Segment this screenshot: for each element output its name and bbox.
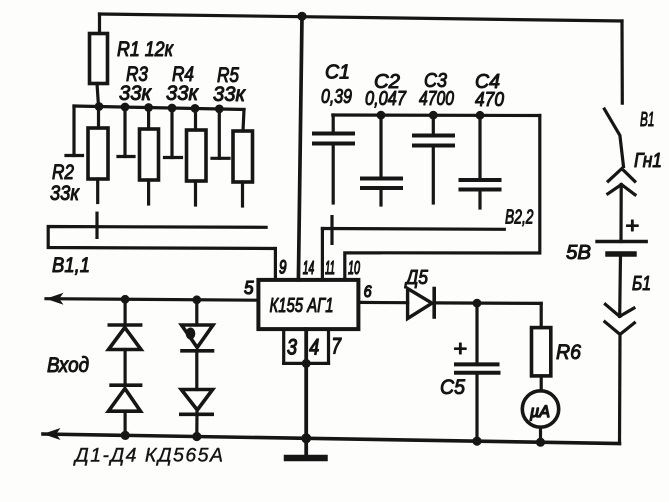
wire switch contact stub beside R4 <box>165 108 182 158</box>
resistor R6 <box>532 303 551 390</box>
svg-text:7: 7 <box>332 334 342 359</box>
battery B1 <box>597 242 646 255</box>
wire battery to plug <box>618 254 622 316</box>
resistor R2 <box>88 107 108 203</box>
node bottom rail junctions <box>121 431 546 447</box>
wire switch contact stub beside R2 <box>66 106 83 156</box>
capacitor C1 <box>314 115 353 203</box>
svg-text:0,047: 0,047 <box>365 88 407 110</box>
svg-text:33к: 33к <box>50 182 80 205</box>
svg-text:В1,1: В1,1 <box>52 254 90 277</box>
svg-text:+: + <box>453 336 467 361</box>
capacitor C2 <box>362 115 401 205</box>
switch B1.1 selector bar <box>48 227 275 249</box>
wire pin 10 to capacitor bus <box>345 116 540 281</box>
resistor R3 <box>140 108 159 205</box>
wire pins 3,4,7 tie <box>284 329 329 438</box>
capacitor C3 <box>414 115 453 203</box>
svg-text:5В: 5В <box>566 242 591 264</box>
svg-text:Д1-Д4 КД565А: Д1-Д4 КД565А <box>73 445 223 467</box>
svg-text:R1 12к: R1 12к <box>117 38 174 61</box>
svg-text:10: 10 <box>348 258 360 278</box>
svg-text:4: 4 <box>309 335 319 360</box>
svg-text:В2,2: В2,2 <box>505 207 534 229</box>
node bus junctions <box>95 102 224 113</box>
svg-text:С5: С5 <box>440 376 465 399</box>
svg-text:Б1: Б1 <box>632 273 651 295</box>
svg-text:33к: 33к <box>166 82 199 105</box>
wire plug to bottom rail <box>618 334 622 443</box>
svg-text:0,39: 0,39 <box>321 86 352 108</box>
wire bottom rail with arrow <box>43 434 620 444</box>
wire pin 5 input rail with arrow <box>46 299 258 301</box>
svg-text:С1: С1 <box>325 62 350 84</box>
resistor R4 <box>187 108 207 205</box>
svg-text:R6: R6 <box>556 341 581 364</box>
input arrowhead lower <box>43 428 61 440</box>
capacitor C4 <box>461 115 500 208</box>
svg-text:Д5: Д5 <box>404 267 428 289</box>
node C5 top junction <box>473 299 482 308</box>
wire top supply rail <box>100 14 623 21</box>
wire diode D5 to R6 <box>434 301 541 305</box>
svg-text:11: 11 <box>325 258 335 278</box>
svg-text:R2: R2 <box>52 161 74 184</box>
svg-text:470: 470 <box>475 89 504 111</box>
plug chevrons <box>605 304 635 334</box>
svg-text:Гн1: Гн1 <box>634 150 662 172</box>
svg-text:В1: В1 <box>640 109 655 131</box>
svg-text:Вход: Вход <box>47 354 89 377</box>
wire pin 6 to diode D5 <box>358 301 407 305</box>
wire switch contact stub beside R5 <box>212 109 229 158</box>
capacitor C5 polarized <box>456 303 499 441</box>
diode D1 <box>109 299 142 385</box>
switch B2.2 selector bar <box>322 227 504 231</box>
wire resistor top bus <box>74 106 244 110</box>
wire switch B2.2 to pin 11 <box>321 229 324 281</box>
svg-text:5: 5 <box>244 278 254 298</box>
diode D3 <box>182 300 214 390</box>
ground <box>287 438 325 458</box>
wire switch B1.1 to pin 9 <box>274 249 277 281</box>
node top rail / pin 14 junction <box>297 12 306 21</box>
svg-text:33к: 33к <box>213 83 246 106</box>
wire meter to bottom rail <box>539 427 542 442</box>
switch B2.2 wiper contact <box>330 217 333 244</box>
svg-text:К155 АГ1: К155 АГ1 <box>270 295 334 317</box>
switch B1 lever <box>604 109 623 166</box>
wire switch contact stub beside R3 <box>118 107 134 157</box>
wire top rail down to switch B1 <box>620 21 623 103</box>
node D1 chain top junction <box>121 295 130 304</box>
resistor R1 <box>90 14 108 106</box>
svg-text:4700: 4700 <box>419 88 454 110</box>
switch B1.1 wiper contact <box>95 213 98 237</box>
node D3 chain top junction <box>192 295 201 304</box>
IC U1 K155AG1 <box>258 280 358 329</box>
svg-text:µА: µА <box>529 402 550 421</box>
diode D2 <box>108 385 140 435</box>
input arrowhead upper <box>46 293 64 305</box>
wire jack to battery <box>619 185 622 242</box>
svg-text:14: 14 <box>303 258 315 278</box>
svg-text:33к: 33к <box>119 82 152 105</box>
svg-text:3: 3 <box>287 335 298 360</box>
svg-text:+: + <box>625 213 639 238</box>
jack Gn1 socket chevrons <box>608 169 635 195</box>
node capacitor bus junctions <box>377 111 485 120</box>
svg-text:9: 9 <box>279 258 287 279</box>
diode D5 <box>408 289 435 319</box>
wire capacitor top bus <box>333 113 540 117</box>
meter PA1 microammeter <box>522 391 558 427</box>
svg-text:6: 6 <box>364 282 372 301</box>
wire top rail to pin 14 <box>298 16 302 280</box>
resistor R5 <box>233 110 253 207</box>
diode D4 <box>181 390 213 437</box>
